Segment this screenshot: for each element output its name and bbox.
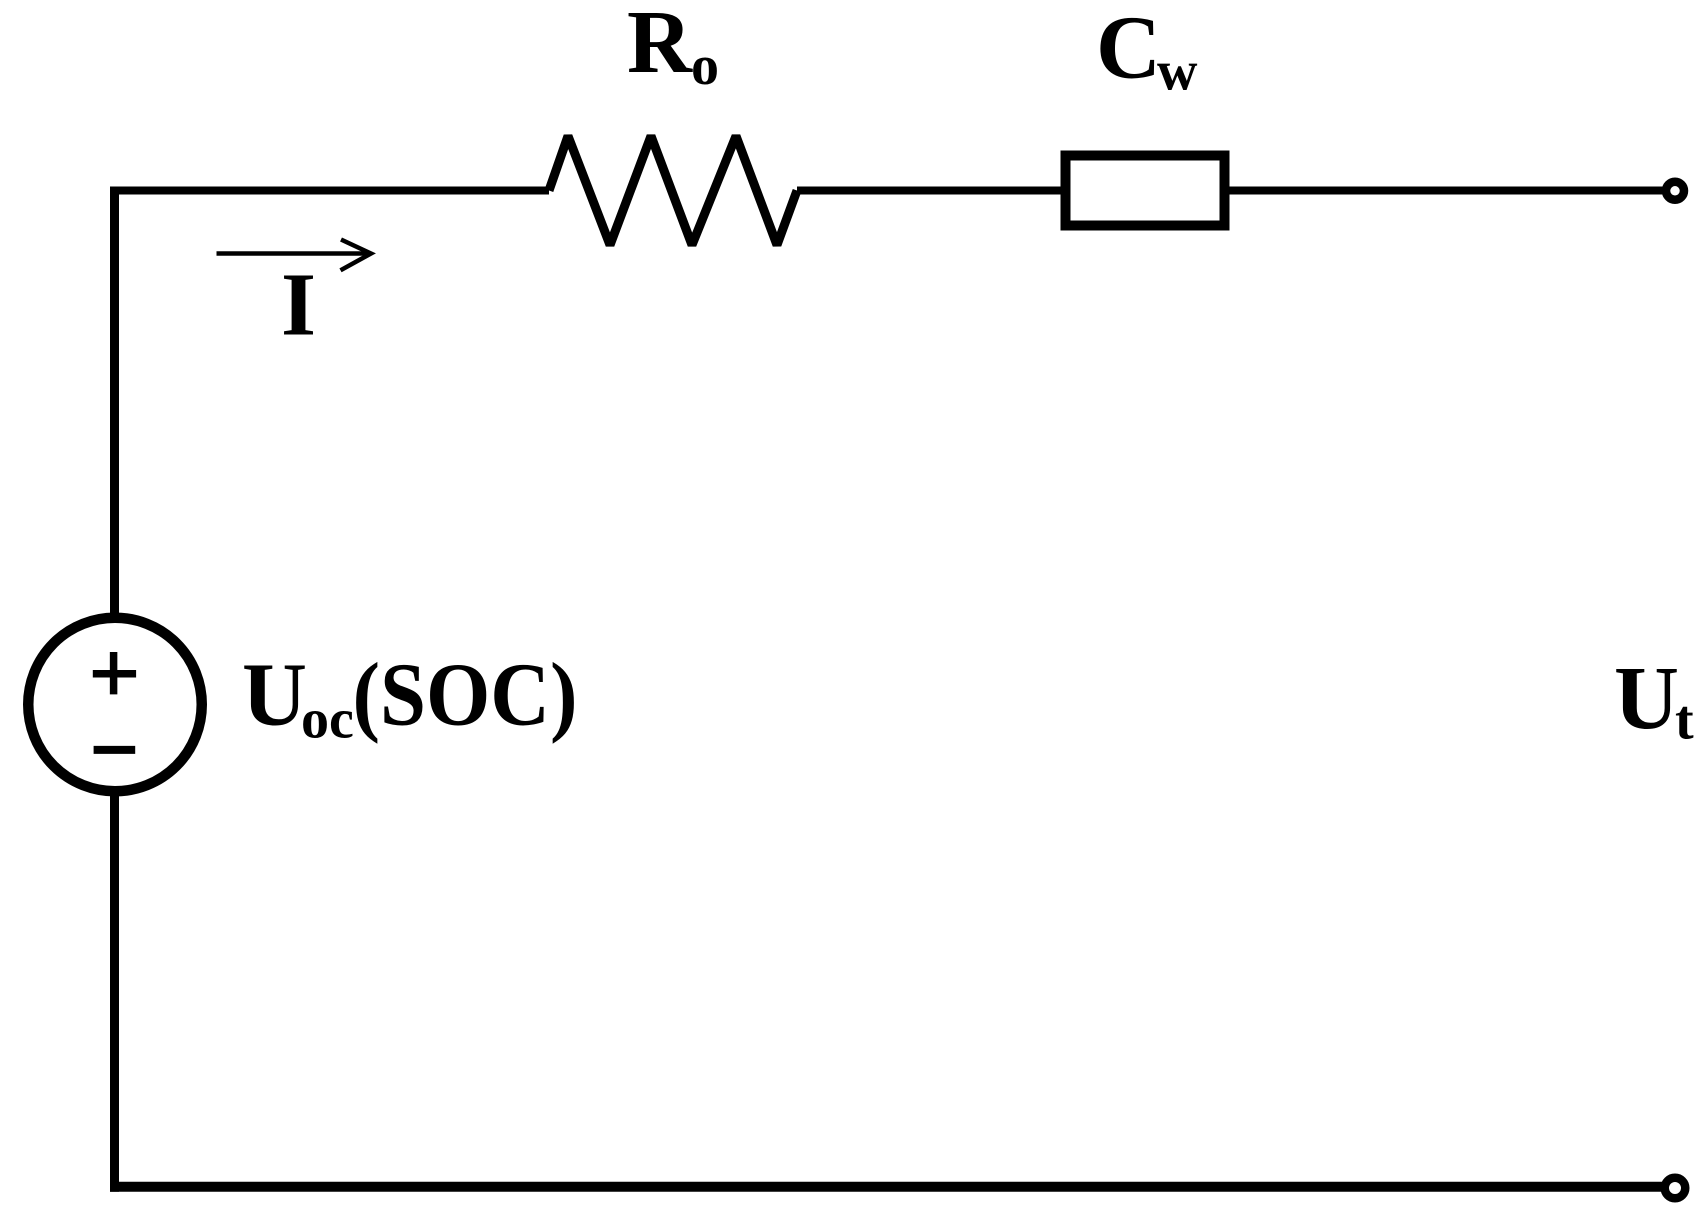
node: bottom-right open terminal: [1665, 1178, 1686, 1199]
minus sign of source: [94, 746, 136, 754]
svg-text:Ro: Ro: [627, 0, 719, 97]
wire: resistor to capacitor box: [797, 187, 1066, 195]
wire: left vertical from source - terminal down to bottom corner: [110, 790, 119, 1192]
wire: top horizontal from left corner to resistor: [110, 187, 549, 195]
svg-text:(SOC): (SOC): [353, 646, 578, 745]
resistor R_o zigzag: [549, 136, 797, 245]
wire: bottom horizontal to bottom-right terminal: [110, 1182, 1666, 1192]
svg-text:Cw: Cw: [1096, 0, 1198, 103]
capacitor C_w box element: [1066, 156, 1225, 226]
current arrow I head: [341, 240, 372, 271]
current arrow I shaft: [217, 251, 369, 256]
node: top-right open terminal: [1666, 182, 1684, 200]
svg-text:Uoc: Uoc: [242, 646, 354, 751]
voltage source U1 circle: [28, 618, 202, 792]
plus sign of source: [93, 652, 136, 694]
wire: capacitor box to top-right terminal: [1229, 187, 1666, 195]
svg-text:I: I: [281, 255, 316, 354]
svg-text:Ut: Ut: [1614, 649, 1694, 752]
wire: left vertical from top corner down to source + terminal: [110, 187, 119, 620]
